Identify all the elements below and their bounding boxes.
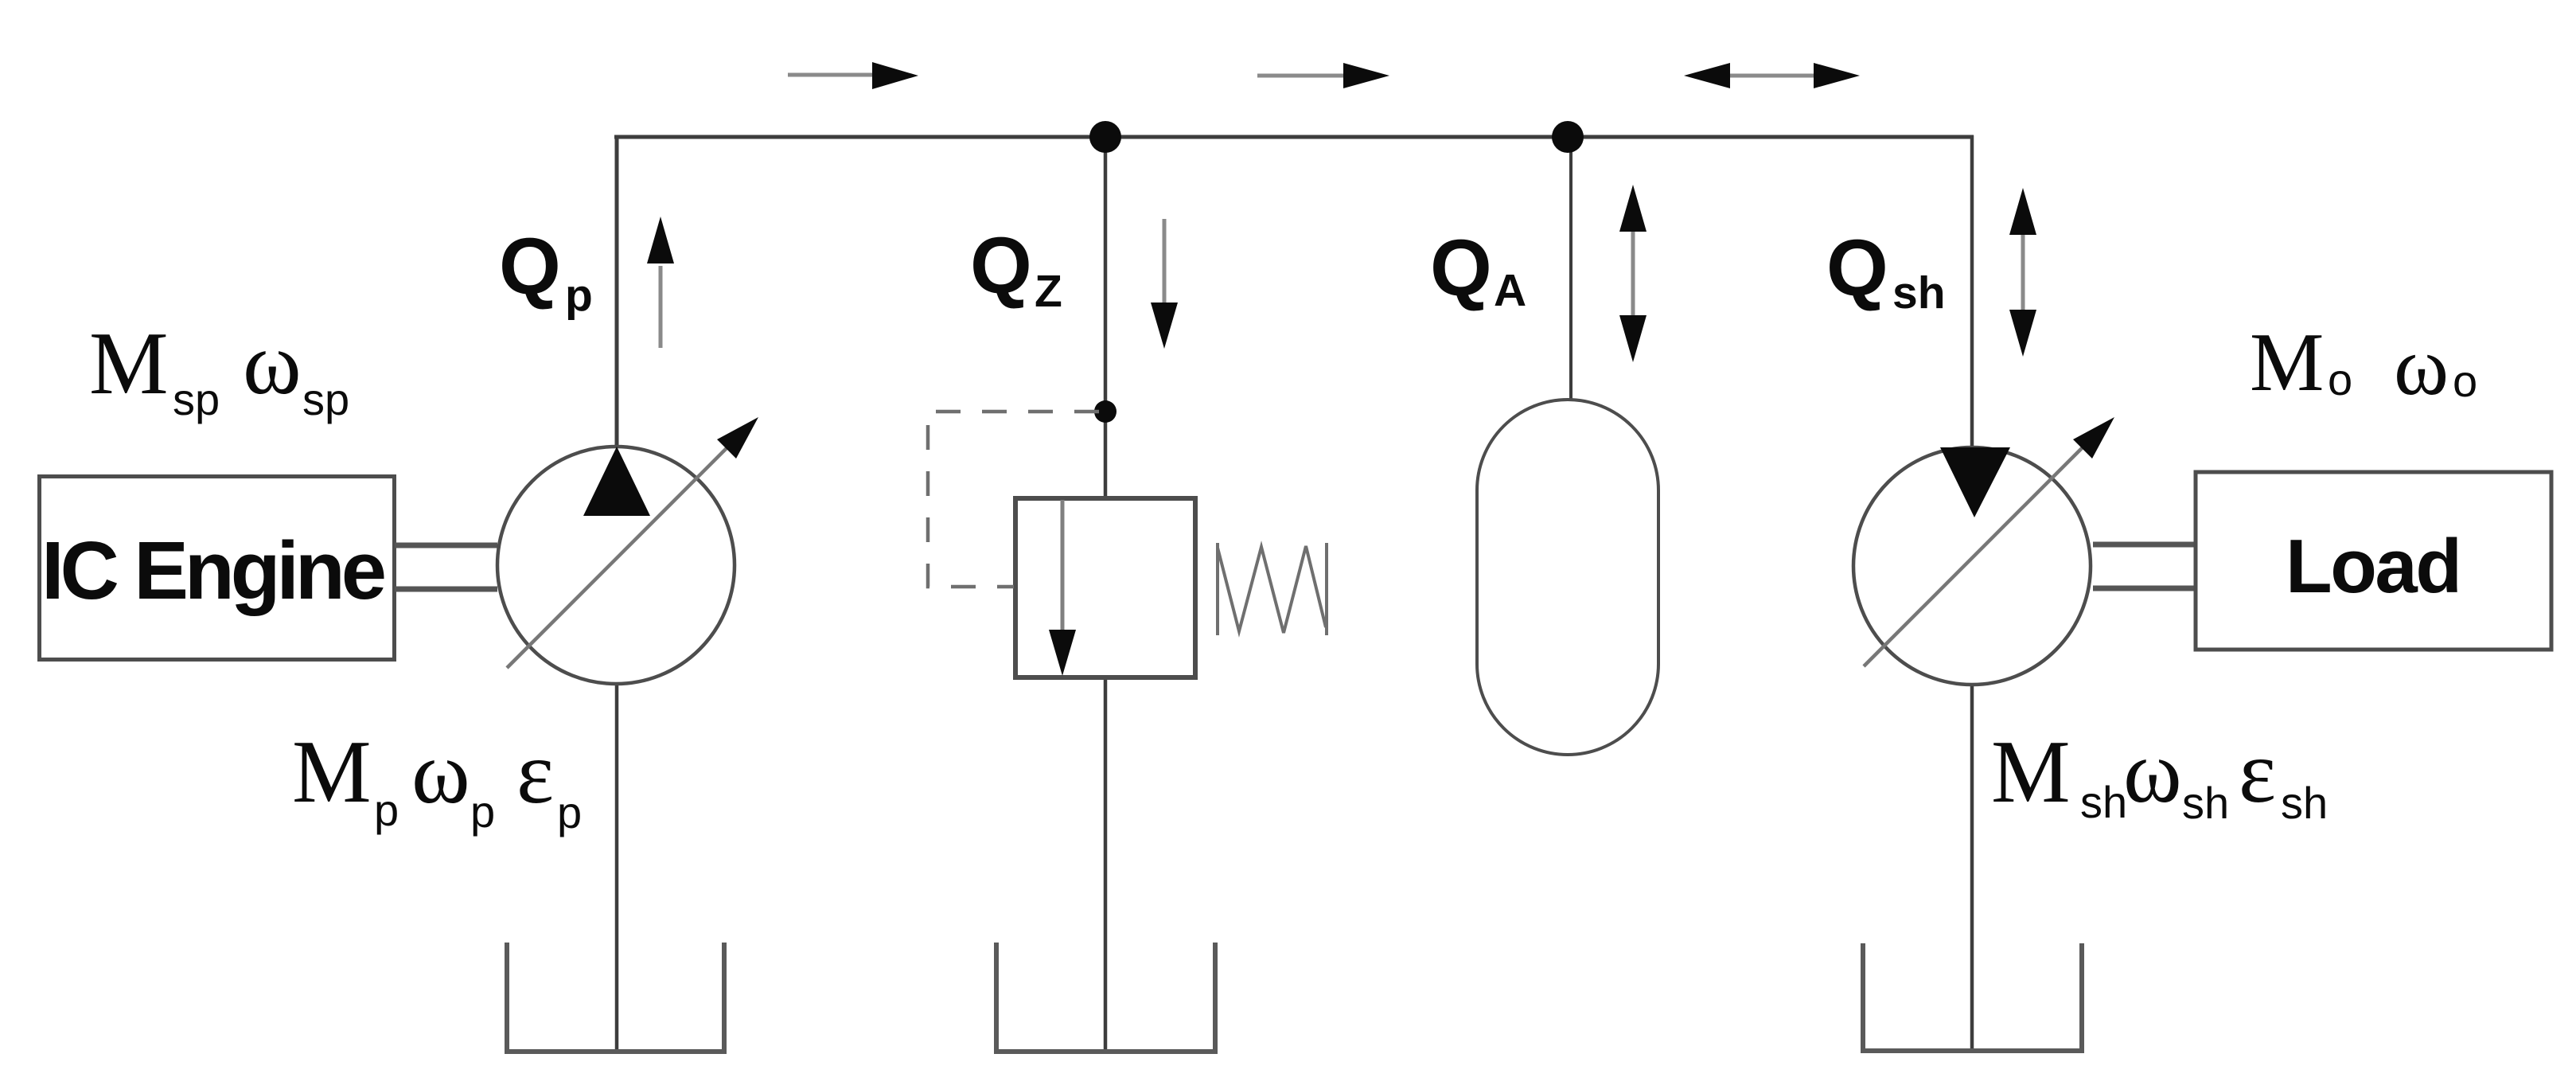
svg-text:sh: sh	[2182, 778, 2229, 828]
svg-text:A: A	[1494, 265, 1526, 316]
svg-text:ω: ω	[243, 314, 302, 413]
flow arrow down beside QZ	[1151, 219, 1178, 349]
svg-text:p: p	[557, 787, 582, 837]
svg-text:o: o	[2453, 356, 2477, 406]
tank 2 (relief valve)	[996, 943, 1215, 1052]
shaft: engine to pump (double line)	[395, 545, 497, 589]
node: pilot line tap dot	[1094, 400, 1117, 423]
svg-text:sh: sh	[1892, 267, 1946, 318]
relief valve internal flow arrow	[1061, 500, 1065, 631]
tank 3 (motor)	[1863, 943, 2082, 1051]
svg-text:Q: Q	[499, 222, 561, 311]
node: junction dot at valve branch	[1089, 121, 1121, 153]
shaft: motor to load (double line)	[2093, 544, 2196, 588]
svg-text:M: M	[89, 314, 169, 413]
svg-text:ω: ω	[2394, 319, 2449, 412]
relief valve V1 body	[1015, 498, 1195, 677]
svg-text:M: M	[1991, 723, 2071, 822]
wire: motor to tank 3	[1970, 684, 1974, 1051]
svg-text:p: p	[565, 270, 593, 321]
IC Engine box	[40, 477, 395, 660]
svg-text:ε: ε	[2239, 723, 2276, 822]
svg-text:M: M	[2250, 315, 2324, 408]
svg-text:sh: sh	[2281, 778, 2328, 828]
flow arrow double vertical beside Qsh	[2009, 188, 2036, 357]
wire: motor riser	[1970, 135, 1974, 447]
svg-text:Q: Q	[1430, 224, 1492, 313]
node: junction dot at accumulator branch	[1552, 121, 1584, 153]
wire: relief valve drop line	[1104, 135, 1108, 498]
svg-text:IC Engine: IC Engine	[41, 525, 387, 616]
label Mo wo	[2250, 315, 2477, 412]
svg-text:p: p	[374, 785, 399, 835]
wire: relief valve to tank 2	[1104, 676, 1108, 1052]
flow arrow double vertical beside QA	[1619, 185, 1647, 362]
svg-text:Q: Q	[970, 221, 1032, 310]
svg-text:ω: ω	[411, 724, 470, 822]
wire: top main line from pump to motor	[614, 135, 1974, 139]
relief valve pilot line (dashed)	[928, 412, 1099, 587]
svg-text:Q: Q	[1826, 224, 1888, 313]
label Qsh	[1826, 224, 1946, 318]
svg-text:o: o	[2328, 354, 2352, 404]
svg-text:sp: sp	[302, 374, 349, 424]
label Msh wsh esh	[1991, 723, 2328, 828]
label Msp wsp	[89, 314, 349, 424]
motor flow triangle (down)	[1940, 447, 2010, 517]
label QZ	[970, 221, 1062, 317]
flow arrow right (top middle)	[1257, 63, 1389, 88]
label Qp	[499, 222, 593, 321]
Load box	[2196, 472, 2551, 650]
svg-text:sh: sh	[2080, 777, 2127, 827]
pump flow triangle (up)	[583, 447, 650, 516]
label QA	[1430, 224, 1526, 316]
flow arrow right (top left)	[788, 62, 918, 89]
flow arrow double-headed (top right)	[1684, 63, 1860, 88]
pump variable-displacement diagonal arrow	[507, 438, 737, 668]
relief valve spring	[1218, 543, 1327, 635]
svg-text:M: M	[292, 723, 372, 822]
tank 1 (pump)	[507, 943, 724, 1052]
svg-text:p: p	[470, 786, 495, 837]
label Mp wp ep	[292, 723, 582, 837]
wire: pump to tank 1	[615, 683, 619, 1052]
svg-text:Z: Z	[1035, 266, 1062, 317]
flow arrow up beside Qp	[647, 217, 674, 348]
wire: pump riser	[615, 135, 619, 447]
svg-text:ω: ω	[2123, 723, 2182, 822]
wire: accumulator drop line	[1569, 135, 1572, 400]
svg-text:ε: ε	[516, 724, 554, 822]
motor M1: variable displacement motor circle	[1853, 417, 2114, 685]
motor variable-displacement diagonal arrow	[1864, 437, 2093, 666]
svg-text:sp: sp	[173, 374, 220, 424]
accumulator A1	[1477, 400, 1658, 755]
pump P1: variable displacement pump circle	[497, 417, 758, 684]
svg-text:Load: Load	[2286, 524, 2462, 609]
